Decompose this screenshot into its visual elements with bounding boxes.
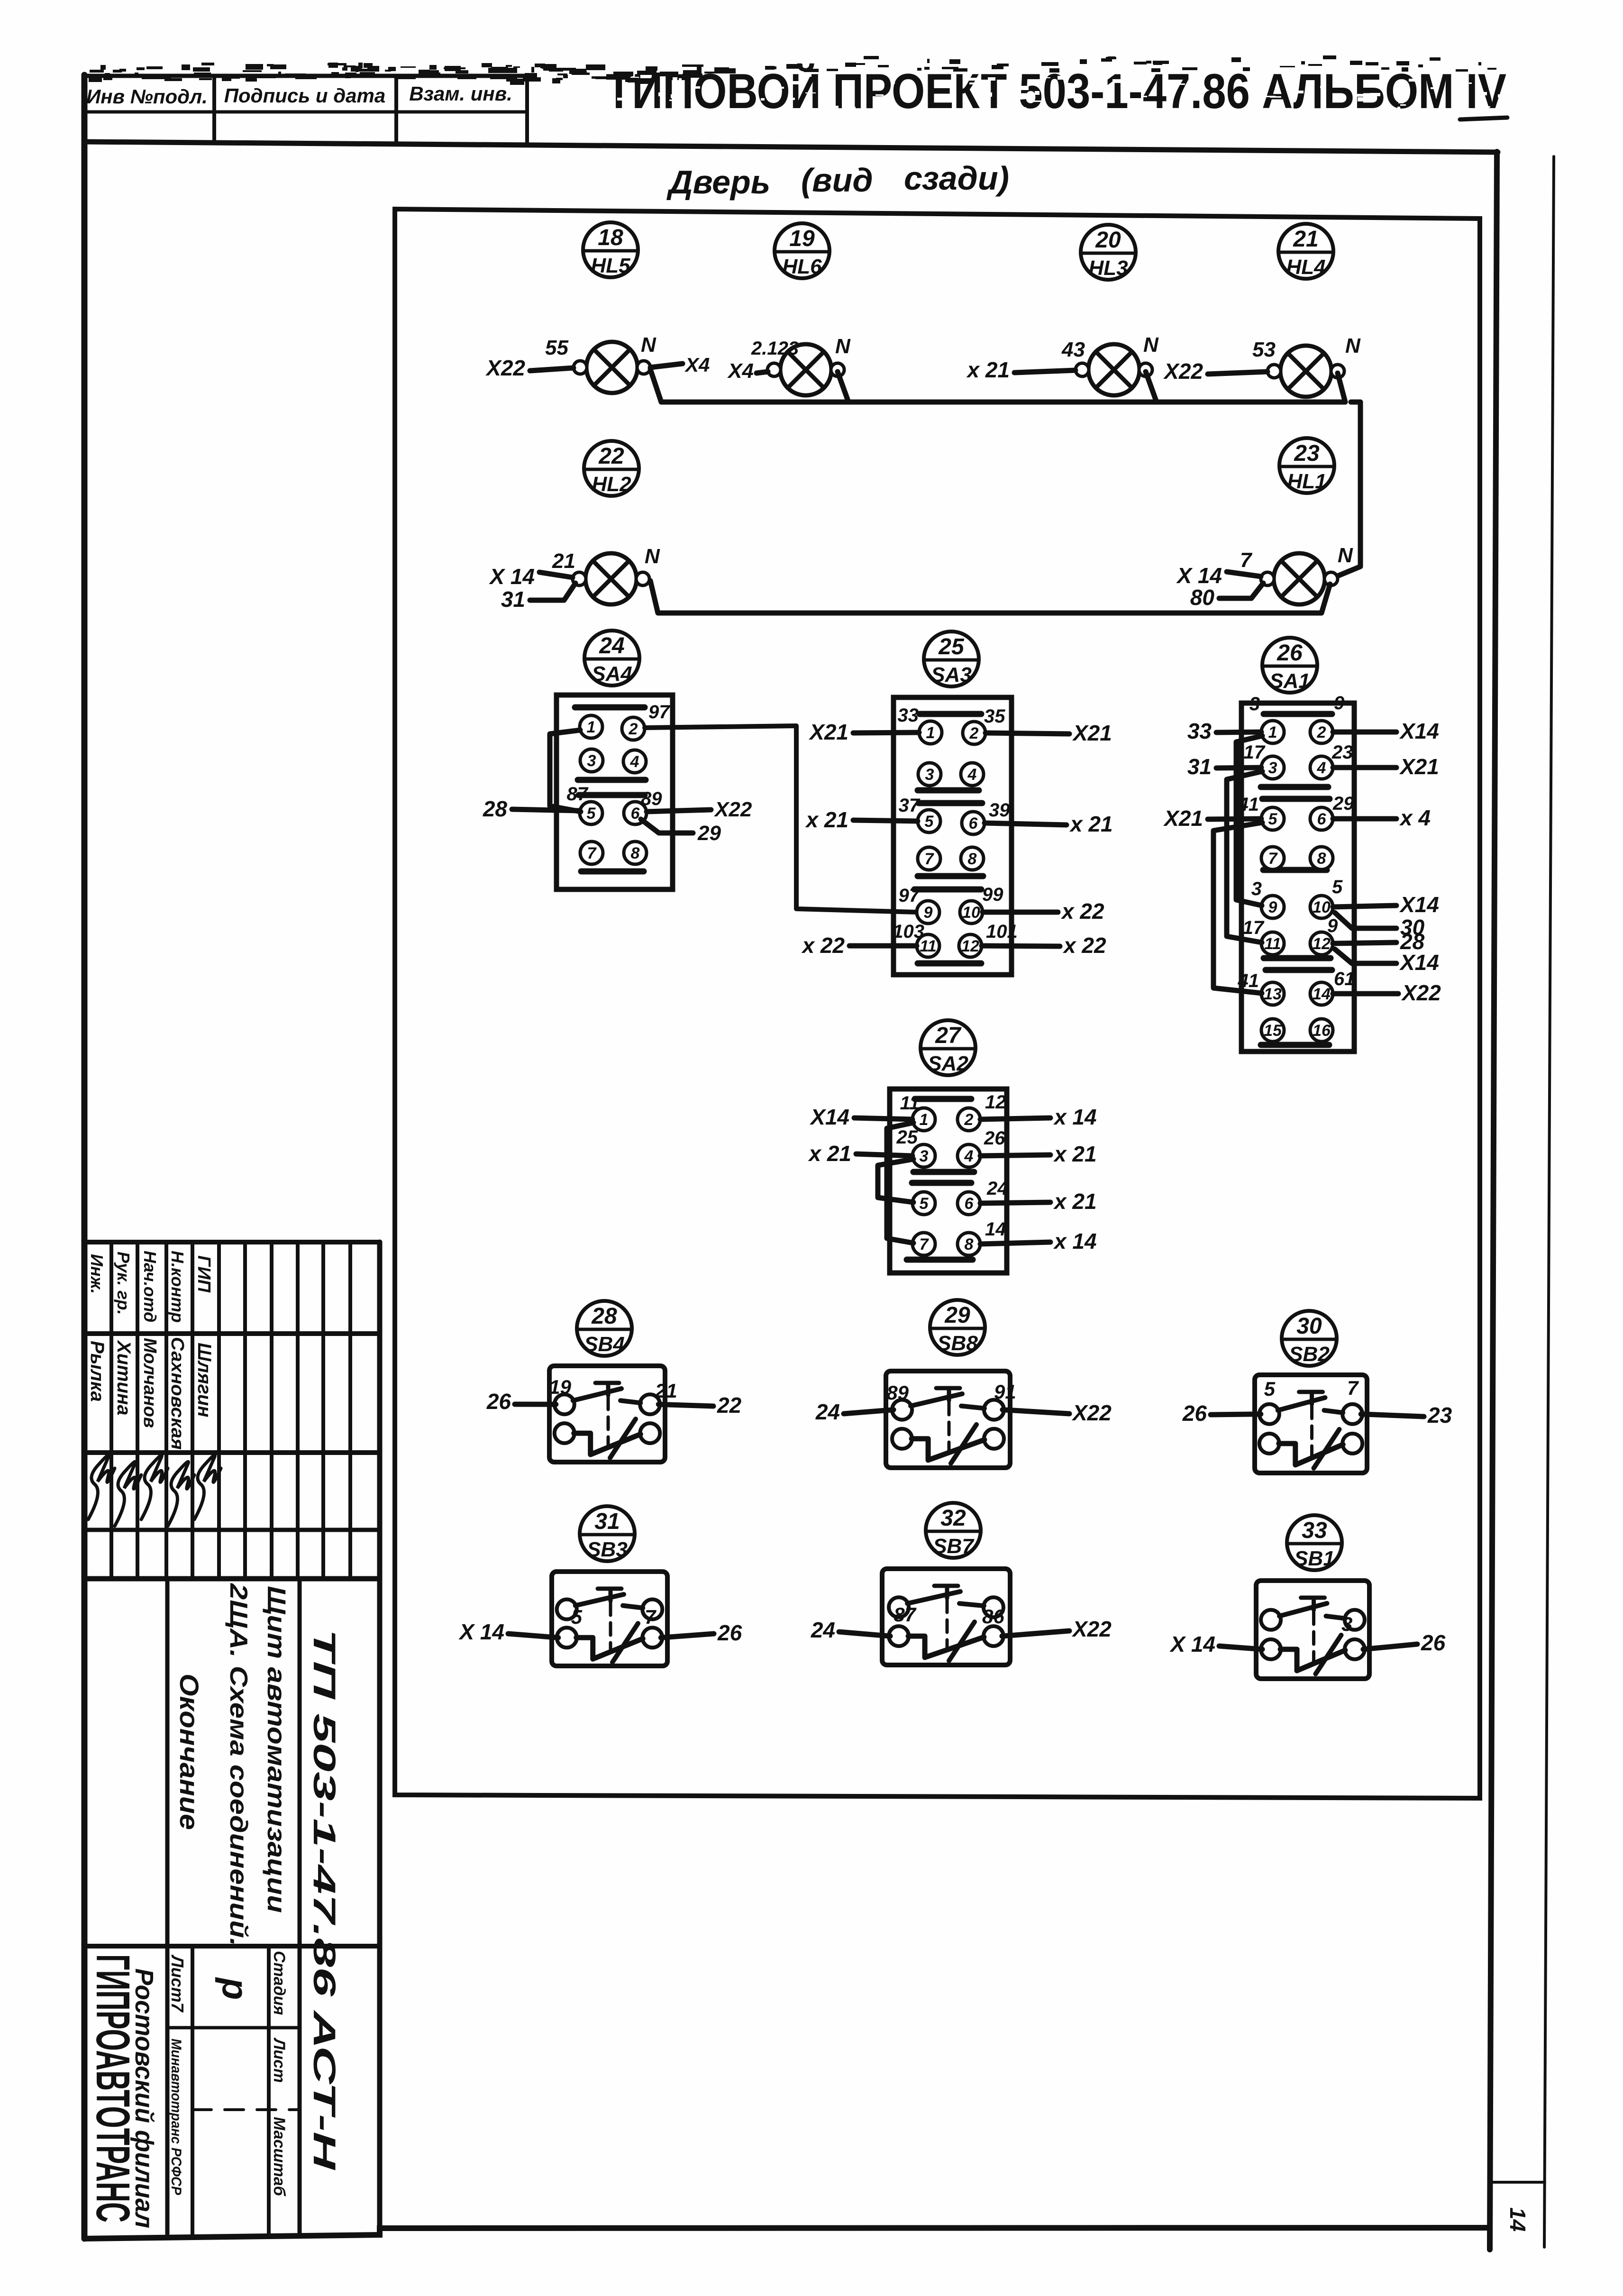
wire X21 from SA2 pin4 [980,1155,1050,1156]
svg-text:6: 6 [969,814,978,832]
svg-text:89: 89 [641,788,662,809]
designator circle 28 SB4 [577,1301,632,1356]
svg-text:х 4: х 4 [1399,805,1431,830]
svg-text:Шлягин: Шлягин [194,1343,215,1418]
wire loop SA2 pin1 to pin7 [887,1123,913,1243]
bus riser HL3 [1146,372,1157,402]
svg-text:х 21: х 21 [966,357,1010,382]
svg-text:97: 97 [648,702,670,723]
designator circle 23 HL1 [1279,438,1334,493]
svg-text:SB1: SB1 [1294,1547,1335,1570]
svg-text:SB8: SB8 [937,1332,978,1355]
wire 31 to SA1 pin3 [1216,768,1261,768]
title TIPOVOI PROEKT 503-1-47.86 ALBOM IV [606,64,1516,119]
svg-text:89: 89 [886,1381,909,1404]
svg-text:28: 28 [483,796,508,821]
svg-text:14: 14 [1505,2207,1530,2232]
svg-text:103: 103 [893,921,924,942]
svg-text:Н.контр: Н.контр [168,1251,187,1323]
svg-text:5: 5 [1264,1378,1276,1400]
designator circle 30 SB2 [1282,1311,1337,1366]
wire 97 SA4 pin2 to SA3 pin9 [645,726,917,912]
pushbutton SB8 body [886,1371,1010,1468]
svg-text:х 22: х 22 [1062,933,1106,958]
svg-text:2: 2 [1317,723,1326,741]
svg-text:24: 24 [815,1400,840,1424]
wire 80 to HL1 left [1219,583,1263,598]
svg-text:26: 26 [717,1620,742,1645]
svg-text:1: 1 [1268,723,1277,741]
svg-text:31: 31 [501,587,525,612]
wire right of SB2 [1361,1414,1424,1417]
svg-text:30: 30 [1296,1314,1322,1339]
bus riser HL6 [838,372,848,402]
lamp HL3 [1076,344,1152,395]
top stamp box [84,74,527,78]
svg-text:9: 9 [1334,693,1345,713]
wire loop SA4 pin1 to pin5 [550,730,581,812]
wire 33 to SA1 pin1 [1216,732,1261,732]
svg-text:11: 11 [1264,935,1281,953]
svg-text:26: 26 [1277,640,1303,666]
svg-text:28: 28 [591,1304,617,1329]
svg-text:43: 43 [1061,338,1085,361]
svg-text:31: 31 [1187,754,1212,779]
svg-text:8: 8 [968,850,977,868]
svg-text:33: 33 [1302,1518,1327,1543]
svg-text:2: 2 [629,720,638,738]
wire X22 from SA3 pin12 [982,946,1060,946]
svg-text:4: 4 [630,753,639,771]
wire X21 from SA1 pin4 [1333,765,1396,770]
svg-text:33: 33 [1187,719,1212,743]
wire loop SA1 pin3 to pin11 [1227,771,1262,942]
svg-text:N: N [1345,334,1361,357]
svg-text:7: 7 [1240,549,1253,572]
wire 29 from SA4 pin6 [641,819,693,833]
svg-text:10: 10 [962,904,980,922]
stamp job titles [87,1251,214,1323]
svg-text:ТП 503-1-47.86 АСТ-Н: ТП 503-1-47.86 АСТ-Н [307,1629,342,2170]
svg-text:Сахновская: Сахновская [167,1337,187,1450]
svg-text:Инж.: Инж. [87,1254,107,1294]
svg-text:Минавтотранс РСФСР: Минавтотранс РСФСР [168,2039,184,2195]
wire 30 from SA1 pin10 [1335,913,1396,928]
svg-text:12: 12 [1313,935,1331,953]
svg-text:6: 6 [1317,810,1327,828]
svg-text:HL3: HL3 [1088,256,1128,280]
svg-text:7: 7 [587,844,597,862]
svg-text:Лист7: Лист7 [168,1954,187,2013]
wire X21 to SA1 pin5 [1208,819,1261,819]
svg-text:5: 5 [1332,877,1343,897]
svg-text:Рылка: Рылка [87,1341,108,1402]
svg-text:97: 97 [899,885,921,906]
svg-text:7: 7 [925,850,935,868]
svg-text:2.123: 2.123 [751,338,799,359]
designator circle 21 HL4 [1278,224,1333,279]
pushbutton SB7 body [882,1569,1010,1665]
lamp HL5 [574,342,650,393]
svg-text:1: 1 [587,718,596,736]
svg-text:21: 21 [1293,227,1318,252]
svg-text:8: 8 [965,1235,974,1253]
svg-text:Х 14: Х 14 [488,564,535,589]
svg-text:Х22: Х22 [713,798,752,821]
svg-text:SB2: SB2 [1289,1343,1330,1366]
svg-text:Лист: Лист [270,2037,288,2083]
svg-text:10: 10 [1313,898,1331,916]
wire X21 to SA3 pin1 [853,732,919,733]
wire X21-43 to HL3 left [1014,370,1076,373]
svg-text:7: 7 [1347,1377,1359,1399]
wire X22 from SA4 pin6 [647,810,711,812]
svg-text:32: 32 [940,1506,966,1531]
svg-text:23: 23 [1427,1403,1452,1427]
svg-text:N: N [1143,333,1159,357]
wire X14 from SA2 pin8 [980,1242,1050,1244]
wire stub X4 from HL5 right [650,364,683,367]
svg-text:SA2: SA2 [928,1052,968,1075]
svg-text:5: 5 [571,1606,583,1628]
switch SA2 body [890,1089,1007,1273]
svg-text:х 21: х 21 [1069,812,1113,836]
svg-text:HL4: HL4 [1286,256,1325,279]
svg-text:6: 6 [965,1195,974,1213]
svg-text:Щит автоматизации: Щит автоматизации [262,1586,291,1913]
wire 31 to HL2 left [530,583,575,600]
svg-text:17: 17 [1243,917,1265,938]
wire left of SB8 [844,1410,894,1414]
svg-text:Подпись и дата: Подпись и дата [224,84,385,107]
svg-text:Хитина: Хитина [113,1340,134,1416]
wire 28 to SA4 pin5 [512,809,580,811]
svg-text:8: 8 [1317,850,1326,868]
svg-text:22: 22 [598,444,624,469]
wire X22 from SA3 pin10 [983,910,1058,915]
svg-text:8: 8 [631,844,640,862]
designator circle 18 HL5 [583,222,638,277]
sheet right border [1490,152,1497,2250]
svg-text:Х14: Х14 [809,1105,849,1129]
wire X21 to SA2 pin3 [856,1154,912,1156]
wire loop SA2 pin3 to pin5 [878,1159,913,1202]
svg-text:х 22: х 22 [1060,899,1104,924]
svg-text:101: 101 [986,921,1018,942]
svg-text:х 14: х 14 [1053,1105,1097,1129]
svg-text:7: 7 [920,1235,930,1253]
svg-text:3: 3 [587,752,596,770]
svg-text:16: 16 [1313,1022,1331,1040]
wire left of SB1 [1219,1646,1262,1649]
lamp HL4 [1267,346,1344,397]
svg-text:Х 14: Х 14 [1176,563,1222,588]
svg-text:91: 91 [994,1381,1016,1403]
svg-text:SA1: SA1 [1269,669,1310,693]
svg-text:N: N [835,335,851,358]
svg-text:80: 80 [1190,585,1215,610]
svg-text:Х21: Х21 [808,720,848,744]
wire right of SB3 [661,1634,714,1637]
wire left of SB2 [1211,1414,1261,1415]
sheet left border [82,75,88,2239]
svg-text:17: 17 [1244,742,1266,763]
designator circle 32 SB7 [926,1503,981,1558]
designator circle 20 HL3 [1081,225,1136,280]
svg-text:7: 7 [645,1606,656,1628]
svg-text:35: 35 [984,706,1005,727]
designator circle 25 SA3 [924,631,979,686]
svg-text:Дверь: Дверь [666,164,770,201]
svg-text:4: 4 [964,1147,974,1165]
svg-text:HL2: HL2 [592,473,631,496]
designator circle 22 HL2 [584,441,639,496]
svg-text:Х14: Х14 [1399,892,1439,917]
designator circle 19 HL6 [775,223,830,278]
N bus row2 wire [650,581,1330,613]
designator circle 31 SB3 [580,1506,635,1561]
svg-text:25: 25 [938,634,965,659]
designator circle 27 SA2 [921,1020,976,1075]
wire loop SA1 pin1 to pin9 [1236,736,1262,906]
svg-text:29: 29 [944,1303,970,1328]
wire X14 from SA2 pin2 [980,1118,1050,1119]
svg-text:12: 12 [961,937,979,955]
svg-text:Х22: Х22 [1401,980,1441,1005]
wire X21 from SA3 pin6 [985,823,1067,825]
svg-text:61: 61 [1334,969,1355,989]
svg-text:99: 99 [982,884,1003,905]
svg-text:Х22: Х22 [1071,1617,1112,1641]
wire right of SB4 [658,1404,713,1406]
svg-text:3: 3 [925,766,934,784]
svg-text:3: 3 [1249,694,1260,714]
svg-text:27: 27 [935,1023,962,1048]
svg-text:12: 12 [985,1092,1006,1113]
svg-text:Окончание: Окончание [174,1674,204,1830]
sheet bottom border [84,2228,1490,2239]
svg-text:26: 26 [1182,1401,1207,1426]
svg-text:Х22: Х22 [1071,1400,1112,1425]
wire left of SB7 [839,1632,890,1636]
svg-text:5: 5 [920,1195,929,1213]
svg-text:Х22: Х22 [485,356,525,380]
svg-text:26: 26 [1421,1630,1446,1655]
stamp signatures [88,1455,221,1526]
wire X22-53 to HL4 left [1208,372,1267,374]
page number cell line [1490,2181,1545,2184]
wire right of SB1 [1363,1644,1417,1649]
lamp HL1 [1261,553,1338,604]
svg-text:37: 37 [899,795,921,816]
svg-text:SB4: SB4 [584,1333,625,1356]
svg-text:23: 23 [1331,742,1353,763]
svg-text:1: 1 [920,1111,929,1129]
scan noise top band [89,55,1496,85]
svg-text:2ЩА. Схема соединений.: 2ЩА. Схема соединений. [225,1583,252,1946]
svg-text:HL1: HL1 [1287,470,1326,493]
svg-text:1: 1 [926,724,935,742]
svg-text:55: 55 [545,336,568,359]
lamp HL6 [767,344,844,395]
sheet top frame line [84,142,1498,152]
svg-text:33: 33 [898,705,919,726]
svg-text:Х21: Х21 [1072,721,1112,745]
pushbutton SB1 body [1256,1581,1369,1679]
wire right of SB7 [1002,1631,1069,1636]
svg-text:5: 5 [587,805,596,823]
svg-text:4: 4 [1317,759,1326,777]
svg-text:Х 14: Х 14 [458,1619,504,1644]
wire X14 to SA2 pin1 [854,1118,912,1119]
wire X4 from SA1 pin6 [1333,816,1396,822]
svg-text:14: 14 [985,1219,1006,1240]
svg-text:ГИП: ГИП [194,1255,214,1293]
svg-text:21: 21 [552,549,575,573]
N bus drop to HL1 [1333,402,1360,578]
wire loop SA1 pin5 to pin13 [1213,823,1262,993]
svg-text:24: 24 [811,1618,835,1642]
wire X14-7 to HL1 left [1227,572,1261,576]
svg-text:41: 41 [1238,794,1259,815]
N bus row1 wire [650,369,1345,402]
switch SA3 body [894,697,1012,975]
svg-text:86: 86 [982,1605,1004,1628]
svg-text:SA3: SA3 [931,663,972,686]
svg-text:р: р [215,1977,255,2000]
svg-text:Рук. гр.: Рук. гр. [114,1252,133,1315]
svg-text:5: 5 [1268,810,1278,828]
switch SA4 body [556,695,673,889]
svg-text:5: 5 [925,813,934,831]
svg-text:53: 53 [1252,338,1276,361]
svg-text:18: 18 [598,225,623,250]
wire X22-55 to HL5 left [530,368,574,371]
svg-text:25: 25 [896,1127,918,1148]
svg-text:Х4: Х4 [684,354,710,376]
svg-text:х 21: х 21 [1053,1142,1097,1166]
drawing frame [395,209,1480,1798]
svg-text:3: 3 [920,1147,929,1165]
svg-text:Х14: Х14 [1399,719,1439,743]
svg-text:24: 24 [599,633,624,659]
svg-text:15: 15 [1264,1022,1282,1040]
svg-text:19: 19 [789,226,815,251]
svg-text:26: 26 [984,1128,1005,1149]
svg-text:N: N [645,545,660,568]
designator circle 33 SB1 [1287,1515,1342,1570]
svg-text:3: 3 [1268,759,1277,777]
svg-text:11: 11 [900,1093,920,1114]
outer right thin line [1544,156,1554,2247]
svg-text:24: 24 [986,1178,1008,1199]
wire X4 2.123 to HL6 left [757,372,768,373]
svg-text:2: 2 [964,1111,974,1129]
wire X14 from SA1 pin2 [1333,730,1396,735]
svg-text:х 21: х 21 [1053,1189,1097,1214]
svg-text:3: 3 [1341,1613,1352,1635]
svg-text:х 21: х 21 [807,1141,851,1166]
wire left of SB3 [508,1634,558,1637]
pushbutton SB4 body [549,1366,665,1462]
svg-text:21: 21 [655,1380,677,1402]
svg-text:SB3: SB3 [587,1538,628,1561]
svg-text:Х21: Х21 [1163,806,1203,831]
svg-text:87: 87 [567,784,589,805]
svg-text:(вид: (вид [801,162,873,199]
designator circle 24 SA4 [584,631,639,686]
svg-text:87: 87 [894,1603,916,1626]
wire X21 from SA2 pin6 [980,1202,1050,1203]
svg-text:26: 26 [486,1389,511,1414]
svg-text:29: 29 [1332,793,1354,814]
svg-text:14: 14 [1313,985,1331,1003]
svg-text:2: 2 [969,724,979,742]
wire X21 from SA3 pin2 [985,733,1069,734]
svg-text:Нач.отд: Нач.отд [140,1251,160,1322]
svg-text:HL6: HL6 [782,255,822,278]
svg-text:22: 22 [717,1393,742,1418]
svg-text:13: 13 [1264,985,1282,1003]
svg-text:Инв №подл.: Инв №подл. [86,85,208,108]
designator circle 29 SB8 [930,1300,985,1355]
svg-text:HL5: HL5 [591,254,630,277]
svg-text:N: N [641,333,656,357]
svg-text:х 22: х 22 [801,933,845,958]
svg-text:19: 19 [549,1376,571,1398]
svg-text:N: N [1338,544,1353,567]
svg-text:Х4: Х4 [727,359,754,383]
svg-text:SB7: SB7 [933,1535,975,1558]
wire right of SB8 [1003,1410,1069,1414]
wire left of SB4 [515,1402,556,1407]
svg-text:31: 31 [594,1509,620,1534]
svg-text:Ростовский филиал: Ростовский филиал [130,1968,158,2228]
lamp HL2 [573,553,649,604]
svg-text:23: 23 [1294,441,1320,466]
svg-text:Молчанов: Молчанов [140,1338,160,1428]
designator circle 26 SA1 [1262,638,1317,693]
svg-text:SA4: SA4 [592,662,632,686]
svg-text:Стадия: Стадия [270,1951,288,2015]
svg-text:Х 14: Х 14 [1169,1632,1215,1656]
svg-text:Взам. инв.: Взам. инв. [409,82,512,105]
svg-text:Х14: Х14 [1399,950,1439,975]
stamp names [87,1337,215,1450]
svg-text:29: 29 [697,822,721,845]
svg-text:Х22: Х22 [1163,359,1203,384]
svg-text:9: 9 [1327,915,1338,936]
stamp grid [86,1242,380,2234]
wire X22 to SA3 pin11 [849,943,917,949]
svg-text:7: 7 [1268,850,1278,868]
svg-text:41: 41 [1238,970,1259,991]
svg-text:3: 3 [1251,878,1262,899]
wire X14-21 to HL2 left [539,572,573,577]
wire X14 from SA1 pin12 [1335,949,1396,963]
svg-text:х 21: х 21 [804,807,848,832]
svg-text:9: 9 [924,904,933,922]
pushbutton SB3 body [552,1572,667,1666]
svg-text:Х21: Х21 [1399,754,1439,779]
svg-text:сзади): сзади) [904,160,1009,197]
wire X21 to SA3 pin5 [853,820,918,821]
wire X14 from SA1 pin10 [1333,906,1396,907]
svg-text:39: 39 [989,800,1010,821]
svg-text:20: 20 [1095,228,1121,253]
pushbutton SB2 body [1255,1375,1367,1473]
svg-text:х 14: х 14 [1053,1229,1097,1253]
